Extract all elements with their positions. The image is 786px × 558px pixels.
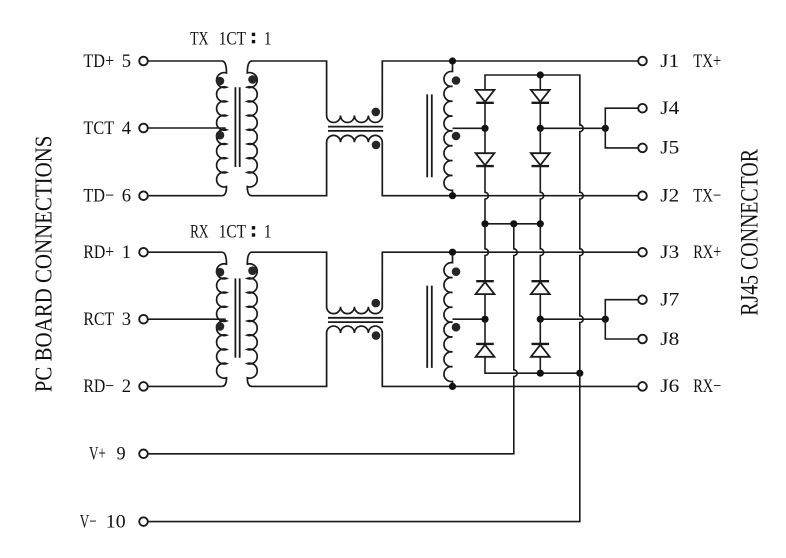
wire J4/J5 bracket [605, 108, 638, 148]
svg-text:TX: TX [190, 29, 209, 49]
wire V+ horizontal [148, 453, 515, 455]
junction T2 (RX) output top [449, 249, 456, 256]
wire T1 (TX) center-tap lead [148, 127, 226, 129]
wire TX center-tap line right [540, 127, 605, 129]
junction TX mid to bracket [602, 125, 609, 132]
junction RX mid node 2 [537, 316, 544, 323]
terminal TD- pin 6 [139, 191, 148, 200]
terminal TCT pin 4 [139, 124, 148, 133]
terminal RD- pin 2 [139, 382, 148, 391]
diode D2 [531, 90, 550, 102]
wire D5 to mid [484, 294, 486, 319]
wire RX column 1 upper [485, 224, 488, 281]
svg-text:J2: J2 [660, 186, 679, 207]
svg-text:RCT: RCT [83, 309, 114, 330]
wire RX column 2 upper [540, 224, 543, 281]
junction bar C / D8 [537, 370, 544, 377]
wire D6 to mid [539, 294, 541, 319]
wire T2 (RX) bottom rail [382, 385, 639, 387]
polarity dot T2 (RX) output top [452, 267, 461, 276]
wire D1 to mid [484, 103, 486, 128]
svg-text:1CT: 1CT [219, 29, 246, 49]
wire D2 column upper [539, 75, 541, 90]
terminal TD+ pin 5 [139, 57, 148, 66]
polarity dot T2 (RX) primary center [216, 322, 225, 331]
wire T2 (RX) top rail [382, 251, 639, 253]
wire TX center-tap line left [453, 127, 486, 129]
svg-text:J7: J7 [660, 290, 679, 311]
junction T2 (RX) output bottom [449, 383, 456, 390]
wire V- net [580, 75, 583, 522]
wire mid to D8 [539, 319, 541, 345]
svg-text:J1: J1 [660, 51, 679, 72]
svg-text:3: 3 [122, 309, 131, 330]
junction bar C / V- line [576, 370, 583, 377]
svg-text:TD−: TD− [83, 186, 114, 207]
wire T2 (RX) secondary bottom to choke [251, 385, 327, 387]
svg-text:9: 9 [117, 444, 126, 465]
svg-text:10: 10 [106, 511, 126, 532]
svg-text:RX−: RX− [693, 376, 721, 397]
polarity dot T2 (RX) choke top [372, 299, 381, 308]
choke T1 (TX) top winding [327, 61, 383, 122]
output core T1 (TX) [426, 94, 428, 177]
autotransformer winding T1 (TX) output [444, 61, 453, 196]
wire mid to D7 [484, 319, 486, 345]
wire RX bottom bar [485, 357, 580, 373]
terminal J3 [638, 248, 647, 257]
wire mid to D4 [539, 128, 541, 153]
transformer T2 (RX) core [234, 278, 236, 357]
svg-text:4: 4 [122, 118, 132, 139]
junction T1 (TX) output bottom [449, 192, 456, 199]
svg-text:V+: V+ [89, 444, 106, 465]
terminal J2 [638, 191, 647, 200]
diode D6 [531, 282, 550, 294]
transformer T2 (RX) secondary winding [247, 252, 257, 386]
diode D8 [531, 345, 550, 357]
choke T2 (RX) core [328, 317, 383, 319]
junction TX mid node 1 [481, 125, 488, 132]
terminal J6 [638, 382, 647, 391]
svg-text:RD+: RD+ [83, 242, 114, 263]
wire J7/J8 bracket [605, 300, 638, 339]
svg-text:J5: J5 [660, 138, 679, 159]
wire RX center-tap line left [453, 318, 486, 320]
wire mid to D3 [484, 128, 486, 153]
junction TX top bar / D2 column [537, 71, 544, 78]
junction bar B left [481, 220, 488, 227]
output core T2 (RX) [426, 286, 428, 368]
polarity dot T1 (TX) primary center [216, 131, 225, 140]
wire T1 (TX) secondary top to choke [251, 60, 327, 62]
junction RX mid to bracket [602, 316, 609, 323]
terminal V- pin 10 [139, 517, 148, 526]
transformer T2 (RX) primary winding [217, 252, 227, 386]
polarity dot T1 (TX) output center [452, 132, 461, 141]
svg-text:J6: J6 [660, 376, 679, 397]
wire T2 (RX) bottom lead [148, 385, 222, 387]
diode D7 [476, 345, 495, 357]
polarity dot T2 (RX) choke bottom [372, 331, 381, 340]
transformer T1 (TX) core [234, 87, 236, 167]
svg-text:J4: J4 [660, 98, 679, 119]
svg-text:PC BOARD CONNECTIONS: PC BOARD CONNECTIONS [32, 136, 58, 393]
wire V+ net [514, 224, 517, 454]
terminal J4 [638, 104, 647, 113]
polarity dot T1 (TX) primary top [216, 77, 225, 86]
terminal V+ pin 9 [139, 450, 148, 459]
diode D4 [531, 153, 550, 165]
svg-text:TD+: TD+ [83, 51, 114, 72]
polarity dot T2 (RX) secondary top [248, 266, 257, 275]
svg-text:TCT: TCT [83, 118, 114, 139]
wire V- horizontal [148, 521, 581, 523]
wire TX top bar [485, 75, 580, 125]
svg-text:RD−: RD− [83, 376, 114, 397]
svg-text:RX+: RX+ [693, 242, 721, 263]
svg-text:1: 1 [264, 29, 272, 49]
polarity dot T1 (TX) choke top [372, 108, 381, 117]
svg-text:V−: V− [80, 511, 97, 532]
svg-text:TX+: TX+ [693, 51, 721, 72]
choke T1 (TX) core [328, 126, 383, 128]
transformer T1 (TX) primary winding [217, 61, 227, 196]
wire T1 (TX) bottom rail [382, 195, 639, 197]
wire T1 (TX) secondary bottom to choke [251, 195, 327, 197]
junction bar B right [537, 220, 544, 227]
polarity dot T1 (TX) output top [452, 76, 461, 85]
svg-text:6: 6 [122, 186, 131, 207]
choke T2 (RX) top winding [327, 252, 383, 313]
choke T1 (TX) bottom winding [327, 135, 383, 195]
wire D4 column to bar B [540, 166, 543, 224]
svg-text:1CT: 1CT [219, 223, 246, 243]
terminal RCT pin 3 [139, 315, 148, 324]
polarity dot T2 (RX) output center [452, 323, 461, 332]
diode D5 [476, 282, 495, 294]
autotransformer winding T2 (RX) output [444, 252, 453, 386]
svg-text:RX: RX [190, 223, 209, 243]
svg-text:2: 2 [122, 376, 131, 397]
junction T1 (TX) output top [449, 57, 456, 64]
svg-text:1: 1 [264, 223, 272, 243]
wire bar B [485, 223, 540, 225]
svg-text:J3: J3 [660, 242, 679, 263]
polarity dot T1 (TX) secondary top [248, 75, 257, 84]
wire T1 (TX) top rail [382, 60, 639, 62]
svg-text:5: 5 [122, 51, 131, 72]
wire T2 (RX) top lead [148, 251, 222, 253]
terminal J7 [638, 295, 647, 304]
wire RX center-tap line right [540, 318, 605, 320]
terminal RD+ pin 1 [139, 248, 148, 257]
svg-text:J8: J8 [660, 329, 679, 350]
choke T2 (RX) bottom winding [327, 326, 383, 386]
svg-text:RJ45 CONNECTOR: RJ45 CONNECTOR [737, 149, 764, 316]
terminal J5 [638, 144, 647, 153]
transformer T1 (TX) secondary winding [247, 61, 257, 196]
junction TX mid node 2 [537, 125, 544, 132]
wire T2 (RX) secondary top to choke [251, 251, 327, 253]
wire T2 (RX) center-tap lead [148, 318, 226, 320]
svg-text:1: 1 [122, 242, 131, 263]
terminal J1 [638, 57, 647, 66]
junction RX mid node 1 [481, 316, 488, 323]
diode D3 [476, 153, 495, 165]
wire D8 to bar C [539, 357, 541, 373]
wire D3 column to bar B [485, 166, 488, 224]
polarity dot T1 (TX) choke bottom [372, 141, 381, 150]
polarity dot T2 (RX) primary top [216, 268, 225, 277]
diode D1 [476, 90, 495, 102]
junction bar B center [510, 220, 517, 227]
wire T1 (TX) top lead [148, 60, 222, 62]
wire T1 (TX) bottom lead [148, 195, 222, 197]
terminal J8 [638, 335, 647, 344]
svg-text:TX−: TX− [693, 186, 721, 207]
